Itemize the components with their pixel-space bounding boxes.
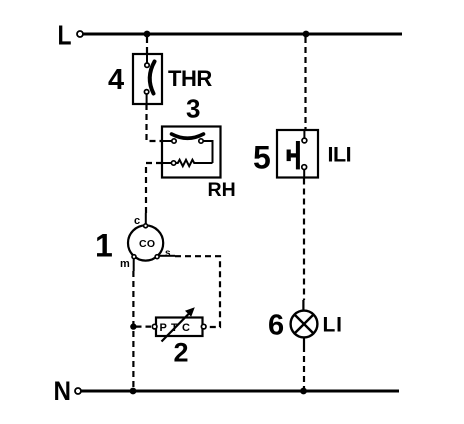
svg-text:c: c (134, 215, 140, 227)
THR top pin stub (146, 54, 148, 63)
wire lamp bottom stub (303, 337, 305, 346)
RH contact blade (172, 134, 204, 138)
THR bimetal blade (150, 62, 155, 94)
junction on N at LI branch (300, 388, 307, 395)
wire junction to PTC left (136, 326, 152, 328)
wire L to ILI dashed (304, 37, 306, 130)
pin s circle (155, 255, 159, 259)
svg-text:ILI: ILI (328, 143, 352, 167)
svg-text:LI: LI (323, 314, 343, 337)
terminal L open circle (77, 31, 83, 37)
svg-text:5: 5 (253, 140, 271, 176)
RH internal right wire (212, 140, 214, 163)
wire THR to RH upper terminal (147, 104, 163, 141)
svg-text:4: 4 (108, 64, 124, 96)
wire ILI to LI dashed (303, 179, 305, 301)
ILI actuator link (291, 153, 296, 157)
THR bottom pin stub (146, 94, 148, 104)
door switch ILI (5) box (277, 130, 318, 178)
RH coil left lead (162, 162, 171, 164)
svg-text:2: 2 (174, 338, 189, 368)
PTC left pin circle (152, 324, 157, 329)
ILI top pin circle (302, 138, 307, 143)
thermostat THR (4) box (133, 54, 162, 104)
compressor motor CO circle (128, 225, 163, 260)
lamp cross stroke 2 (295, 315, 314, 334)
svg-text:6: 6 (268, 310, 284, 342)
lamp cross stroke 1 (295, 315, 314, 334)
RH contact left pin circle (172, 139, 176, 143)
svg-text:3: 3 (186, 94, 200, 124)
svg-text:PTC: PTC (160, 322, 195, 334)
wire lamp to N dashed (303, 346, 305, 390)
svg-text:CO: CO (139, 238, 155, 250)
RH contact left lead (162, 140, 172, 142)
wire stub to lamp top (302, 300, 304, 311)
svg-text:s: s (165, 248, 171, 259)
svg-text:RH: RH (208, 179, 236, 201)
wire m down (133, 259, 135, 271)
THR bottom pin circle (144, 90, 148, 94)
RH heater resistor zigzag (176, 160, 213, 166)
svg-text:1: 1 (95, 228, 113, 264)
ILI bottom pin circle (302, 165, 307, 170)
THR top pin circle (145, 63, 149, 67)
PTC right pin circle (201, 324, 206, 329)
PTC starter (2) box (156, 318, 203, 337)
svg-text:THR: THR (168, 66, 212, 91)
PTC variability arrow shaft (162, 312, 191, 342)
ILI movable contact bar (296, 141, 300, 169)
PTC arrow head (185, 307, 195, 317)
wire stub into c (145, 213, 147, 224)
RH coil pin circle (171, 161, 175, 165)
svg-text:N: N (54, 376, 72, 406)
wire s lead right (159, 255, 175, 257)
wire L rail (84, 33, 403, 36)
wire L to THR (146, 37, 148, 54)
lamp LI (6) circle (291, 311, 318, 338)
ILI actuator pad (287, 150, 291, 162)
pin c circle (144, 224, 148, 228)
junction on N at CO branch (130, 388, 137, 395)
RH contact right lead (203, 140, 212, 142)
svg-text:m: m (120, 258, 130, 270)
junction on L at THR branch (144, 31, 151, 38)
wire RH lower terminal to CO c (146, 163, 162, 214)
ILI bottom pin stub (303, 170, 305, 178)
pin m circle (132, 255, 136, 259)
relay RH (3) box (162, 127, 221, 178)
svg-text:L: L (58, 19, 72, 50)
ILI top pin stub (303, 130, 305, 138)
RH contact right pin circle (199, 139, 203, 143)
wire m to N dashed (132, 271, 134, 390)
wire N rail (82, 390, 400, 393)
junction m line at PTC branch (130, 323, 136, 329)
terminal N open circle (75, 388, 81, 394)
wire s to PTC right dashed (175, 256, 220, 327)
junction on L at ILI branch (303, 31, 310, 38)
